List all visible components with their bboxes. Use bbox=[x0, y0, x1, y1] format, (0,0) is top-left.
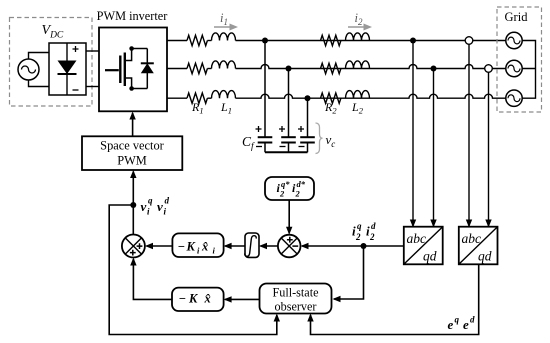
wire phase line c bbox=[167, 97, 187, 99]
resistor R2 (phase c) bbox=[321, 93, 341, 103]
minus terminal mark bbox=[73, 89, 79, 91]
wire vi node to observer (bottom-left feedback) bbox=[109, 205, 277, 335]
abc/qd block 1 bbox=[404, 227, 443, 265]
wire summing node to SVPWM bbox=[132, 172, 134, 235]
node: phase a to cap bbox=[262, 38, 268, 44]
wire bbox=[207, 97, 211, 99]
svg-text:−Kx̂: −Kx̂ bbox=[179, 292, 211, 306]
svg-text:abc: abc bbox=[407, 231, 427, 246]
wire leg bottom to diode bbox=[132, 88, 148, 90]
brace vc bbox=[316, 123, 323, 154]
wire AC source to rectifier (top) bbox=[29, 53, 50, 60]
wire leg top to diode bbox=[132, 48, 148, 50]
current arrow i1 bbox=[214, 26, 231, 28]
svg-text:abc: abc bbox=[462, 231, 482, 246]
wire SVPWM to inverter bbox=[132, 113, 134, 136]
inductor L1 (phase c) bbox=[212, 91, 236, 99]
wire phase a to grid bbox=[236, 40, 506, 42]
wire phase c with hops bbox=[236, 94, 506, 98]
resistor R1 (phase c) bbox=[187, 93, 207, 103]
wire S2 to integrator bbox=[261, 245, 278, 247]
current arrow i2 bbox=[348, 26, 365, 28]
wire observer to -K bbox=[225, 298, 259, 300]
wire i2 node to observer bbox=[334, 246, 364, 299]
svg-text:observer: observer bbox=[275, 300, 317, 314]
svg-text:PWM: PWM bbox=[117, 154, 147, 168]
node: voltage sense phase a bbox=[465, 37, 473, 45]
inductor L2 (phase c) bbox=[346, 91, 370, 99]
wire -K to S1 bbox=[133, 259, 172, 299]
capacitor Cf (phase b) bbox=[279, 126, 296, 152]
node: voltage sense phase b bbox=[485, 65, 493, 73]
inductor L1 (phase b) bbox=[212, 61, 236, 69]
wire phase b down to capacitor 2 bbox=[288, 69, 290, 138]
node i2 bbox=[361, 243, 367, 249]
resistor R2 (phase a) bbox=[321, 35, 341, 45]
wire grid neutral bus bbox=[522, 41, 535, 99]
rectifier box bbox=[49, 43, 86, 95]
wire reference to S2 bbox=[288, 200, 290, 233]
Space vector PWM block bbox=[82, 136, 182, 170]
svg-text:Space vector: Space vector bbox=[100, 139, 165, 153]
node: phase b to cap bbox=[286, 66, 292, 72]
wire voltage sense b down to abc/qd bbox=[488, 72, 490, 226]
AC source grid phase c bbox=[506, 90, 522, 106]
gain block -Ki xi bbox=[172, 233, 223, 257]
svg-text:Full-state: Full-state bbox=[272, 286, 318, 300]
wire current sense b down to abc/qd bbox=[433, 69, 435, 227]
PWM inverter box U1 bbox=[99, 28, 167, 112]
AC source grid phase b bbox=[506, 60, 522, 76]
Grid dashed enclosure bbox=[497, 7, 542, 112]
wire current sense a down to abc/qd bbox=[412, 41, 414, 227]
diode D2 (antiparallel) bbox=[146, 49, 148, 89]
node: inverter leg bottom bbox=[129, 86, 134, 91]
capacitor Cf (phase a) bbox=[256, 126, 273, 152]
node: inverter leg top bbox=[129, 46, 134, 51]
svg-text:qd: qd bbox=[478, 249, 492, 264]
wire phase line b bbox=[167, 68, 187, 70]
rectifier diode D1 bbox=[66, 43, 68, 95]
summing junction S2 bbox=[278, 235, 301, 258]
reference block i2* bbox=[265, 177, 314, 200]
transistor Q1 (MOSFET) bbox=[105, 49, 132, 89]
plus terminal mark bbox=[73, 46, 79, 52]
resistor R1 (phase b) bbox=[187, 63, 207, 73]
wire phase b with hops over cap and sense verticals bbox=[236, 65, 506, 69]
node: current sense phase b bbox=[431, 66, 437, 72]
svg-text:Grid: Grid bbox=[505, 10, 529, 24]
inductor L2 (phase a) bbox=[346, 33, 370, 41]
wire bbox=[207, 40, 211, 42]
svg-text:PWM inverter: PWM inverter bbox=[97, 9, 168, 23]
AC source grid phase a bbox=[506, 32, 522, 48]
wire voltage sense a down to abc/qd bbox=[468, 44, 470, 226]
inductor L2 (phase b) bbox=[346, 61, 370, 69]
wire abc/qd-1 to S2 bbox=[302, 245, 404, 247]
wire AC source to rectifier (bottom) bbox=[29, 80, 50, 87]
wire rectifier to inverter (top) bbox=[86, 50, 99, 52]
svg-text:qd: qd bbox=[423, 249, 437, 264]
wire capacitor common bus bbox=[265, 151, 308, 153]
wire phase a down to capacitor 1 bbox=[264, 41, 266, 138]
wire bbox=[207, 68, 211, 70]
capacitor Cf (phase c) bbox=[298, 126, 315, 152]
inductor L1 (phase a) bbox=[212, 33, 236, 41]
wire phase line a bbox=[167, 40, 187, 42]
node: current sense phase a bbox=[410, 38, 416, 44]
abc/qd block 2 bbox=[459, 227, 498, 265]
full-state observer block bbox=[260, 284, 332, 314]
resistor R2 (phase b) bbox=[321, 63, 341, 73]
integrator block bbox=[245, 233, 259, 257]
gain block -K x bbox=[172, 288, 224, 311]
node: phase c to cap bbox=[305, 95, 311, 101]
node vi bbox=[130, 202, 136, 208]
wire abc/qd-2 to observer (e feedback) bbox=[311, 264, 479, 334]
wire -Ki to S1 bbox=[147, 245, 173, 247]
summing junction S1 bbox=[122, 235, 145, 258]
wire rectifier to inverter (bottom) bbox=[86, 86, 99, 88]
wire integrator to -Ki bbox=[225, 245, 245, 247]
DC source dashed enclosure bbox=[10, 18, 93, 107]
wire phase c down to capacitor 3 bbox=[307, 98, 309, 137]
AC source (utility) bbox=[18, 59, 39, 80]
resistor R1 (phase a) bbox=[187, 35, 207, 45]
